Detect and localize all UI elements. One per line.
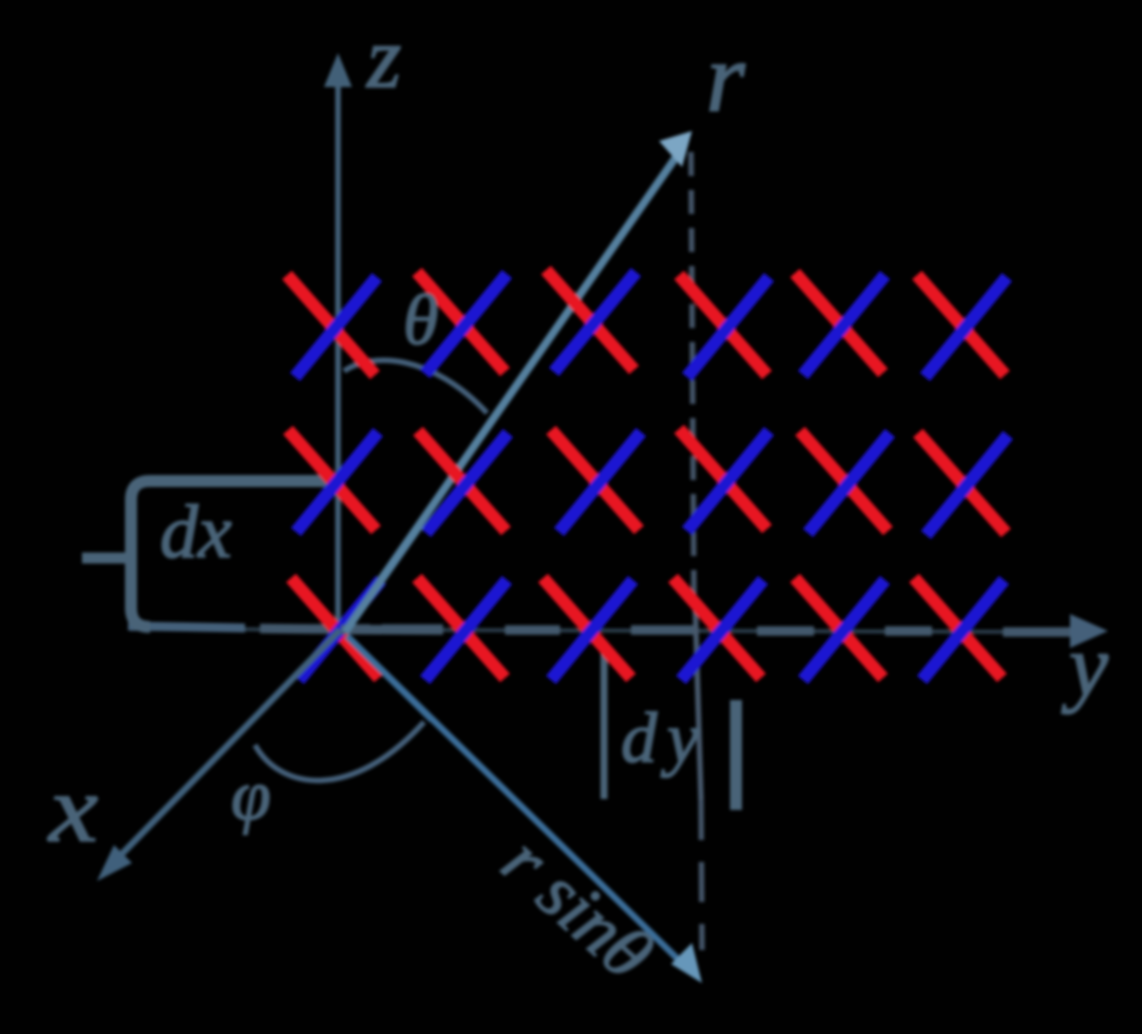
svg-text:z: z: [366, 10, 401, 107]
svg-text:dy: dy: [621, 698, 709, 778]
svg-text:dx: dx: [160, 490, 232, 574]
svg-text:φ: φ: [231, 755, 271, 835]
svg-text:r: r: [706, 22, 746, 133]
svg-text:x: x: [47, 755, 98, 862]
svg-text:r sinθ: r sinθ: [487, 821, 668, 996]
svg-text:y: y: [1061, 618, 1109, 715]
svg-text:θ: θ: [403, 280, 438, 360]
